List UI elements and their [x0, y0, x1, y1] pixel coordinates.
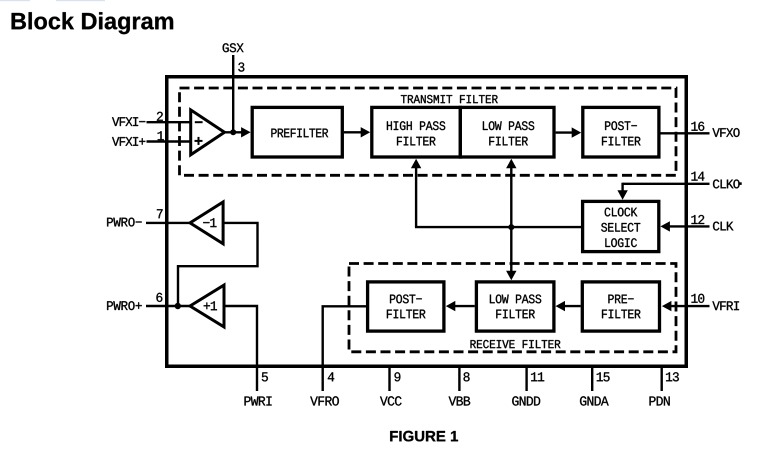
- pin 13 stub: [661, 366, 663, 391]
- VCC label: [380, 396, 402, 405]
- VBB label: [449, 397, 471, 406]
- pin 8 stub: [458, 366, 460, 391]
- junction dot PWRO+: [175, 303, 181, 309]
- wire prefilter to high pass filter: [344, 131, 362, 133]
- CLKO label: [713, 180, 740, 189]
- high pass filter label: [387, 121, 445, 130]
- wire clock select logic to filters: [415, 226, 581, 228]
- wire CLKO pin 14: [623, 183, 710, 185]
- clock select logic block: [583, 201, 659, 251]
- pin 1 number: [158, 131, 164, 140]
- pin 16 number: [691, 122, 704, 131]
- arrow into clock select logic: [660, 221, 670, 231]
- wire VFRI pin 10: [670, 305, 710, 307]
- junction dot GSX on output: [230, 129, 236, 135]
- wire CLK pin 12: [669, 225, 710, 227]
- transmit filter label: [401, 95, 498, 103]
- low pass filter label (transmit): [483, 121, 534, 130]
- PDN label: [650, 397, 670, 406]
- prefilter label: [271, 129, 328, 138]
- post-filter block (receive): [368, 282, 444, 331]
- VFRI label: [712, 301, 739, 310]
- post-filter label (transmit): [605, 121, 637, 130]
- arrow into receive post-filter: [446, 301, 456, 311]
- VFRO label: [310, 396, 339, 405]
- wire receive post-filter to VFRO pin 4: [323, 306, 366, 391]
- clock select logic label: [605, 208, 638, 217]
- A1 plus sign: [195, 140, 203, 142]
- arrow into post-filter: [572, 127, 582, 137]
- arrow down into clock select logic: [617, 190, 627, 200]
- pin 11 stub: [525, 366, 527, 391]
- pin 15 number: [597, 372, 610, 381]
- wire PWRO+ output: [146, 305, 191, 307]
- high pass filter block: [372, 107, 461, 157]
- VFXI- label: [112, 117, 145, 126]
- wire low pass to post-filter: [556, 131, 573, 133]
- wire VFXI+ input: [147, 140, 193, 142]
- pin 6 number: [156, 293, 162, 302]
- A1 minus sign: [195, 121, 203, 123]
- PWRO- label: [107, 218, 142, 227]
- wire post-filter to VFXO pin 16: [661, 132, 710, 134]
- low pass filter block (transmit): [460, 107, 554, 157]
- transmit filter dashed box: [180, 88, 677, 175]
- receive filter label: [471, 340, 561, 348]
- post-filter label (receive): [390, 295, 422, 304]
- pin 11 number: [531, 372, 544, 381]
- GSX label: [223, 43, 244, 52]
- wire GSX pin 3: [232, 55, 234, 133]
- pin 9 stub: [388, 366, 390, 391]
- arrow down into receive low pass filter: [506, 271, 516, 281]
- wire A1 output: [225, 131, 244, 133]
- wire up into high pass filter: [415, 167, 417, 227]
- arrow into high pass filter: [361, 127, 371, 137]
- low pass filter block (receive): [476, 282, 554, 331]
- pin 3 number: [238, 63, 244, 72]
- A2 gain label: [203, 218, 216, 227]
- CLK label: [713, 222, 734, 231]
- GNDD label: [512, 396, 540, 405]
- outer IC boundary box: [167, 77, 687, 367]
- arrow up into high pass filter: [411, 159, 421, 169]
- pin 2 number: [157, 112, 163, 121]
- op-amp A2 gain -1: [190, 202, 223, 244]
- A3 gain label: [204, 301, 217, 310]
- PWRO+ label: [107, 301, 142, 310]
- op-amp A3 gain +1: [190, 285, 224, 327]
- wire A2 input path: [178, 223, 258, 306]
- figure caption: [390, 431, 458, 442]
- pin 8 number: [464, 372, 470, 381]
- pin 7 number: [157, 209, 163, 218]
- wire up into low pass filter: [510, 167, 512, 227]
- GNDA label: [580, 396, 609, 405]
- op-amp A1 input amplifier: [191, 110, 225, 155]
- wire down to receive low pass filter: [510, 227, 512, 272]
- wire PWRO- output: [146, 222, 191, 224]
- arrow into receive low pass filter: [556, 301, 566, 311]
- prefilter block: [252, 107, 342, 157]
- wire VFXI- input: [147, 121, 193, 123]
- pin 14 number: [691, 172, 704, 181]
- VFXO label: [712, 128, 739, 137]
- pre-filter block (receive): [582, 282, 659, 331]
- stray dot after CLKO: [740, 182, 742, 185]
- arrow into prefilter: [241, 127, 251, 137]
- cropped text sliver top-left: [0, 0, 30, 1]
- receive filter dashed box: [349, 264, 676, 352]
- wire pre-filter to receive low pass: [564, 305, 581, 307]
- junction dot clock line: [508, 224, 514, 230]
- low pass filter label (receive): [490, 295, 541, 304]
- PWRI label: [245, 397, 272, 406]
- wire A3 input to PWRI pin 5: [224, 306, 257, 391]
- arrow into pre-filter: [662, 301, 672, 311]
- cropped text sliver top-mid: [56, 0, 105, 1]
- pin 9 number: [395, 372, 401, 381]
- arrow up into low pass filter: [506, 159, 516, 169]
- pin 5 number: [262, 372, 268, 381]
- pin 15 stub: [591, 366, 593, 391]
- pin 12 number: [691, 215, 704, 224]
- VFXI+ label: [112, 137, 145, 146]
- pre-filter label: [608, 295, 633, 304]
- pin 4 number: [328, 372, 334, 381]
- post-filter block (transmit): [583, 107, 659, 157]
- pin 10 number: [691, 294, 704, 303]
- title Block Diagram: [12, 12, 174, 34]
- wire receive low pass to post-filter: [455, 305, 475, 307]
- pin 13 number: [666, 372, 679, 381]
